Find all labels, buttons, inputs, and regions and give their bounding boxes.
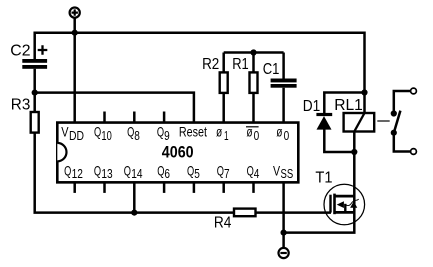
svg-text:V: V	[273, 162, 281, 178]
svg-text:12: 12	[72, 166, 83, 181]
svg-text:R3: R3	[11, 97, 31, 114]
svg-text:T1: T1	[315, 170, 332, 187]
svg-text:Q: Q	[157, 162, 164, 178]
svg-text:V: V	[61, 124, 69, 140]
svg-text:DD: DD	[69, 128, 84, 143]
svg-text:Q: Q	[94, 162, 101, 178]
svg-text:Reset: Reset	[179, 124, 207, 140]
svg-text:8: 8	[134, 128, 140, 143]
svg-text:Q: Q	[64, 162, 71, 178]
svg-text:SS: SS	[281, 166, 294, 181]
svg-text:0: 0	[284, 128, 290, 143]
svg-text:9: 9	[164, 128, 170, 143]
svg-text:Q: Q	[94, 124, 101, 140]
svg-text:Q: Q	[127, 124, 134, 140]
svg-text:R4: R4	[214, 215, 232, 232]
svg-text:D1: D1	[303, 98, 321, 115]
svg-text:13: 13	[101, 166, 112, 181]
svg-text:ø: ø	[216, 124, 223, 140]
svg-text:4: 4	[254, 166, 260, 181]
svg-text:Q: Q	[187, 162, 194, 178]
svg-text:1: 1	[224, 128, 229, 143]
svg-text:RL1: RL1	[334, 97, 363, 114]
svg-text:Q: Q	[247, 162, 254, 178]
svg-text:ø: ø	[246, 124, 253, 140]
svg-text:0: 0	[254, 128, 260, 143]
svg-text:Q: Q	[124, 162, 131, 178]
svg-text:ø: ø	[276, 124, 283, 140]
svg-text:Q: Q	[217, 162, 224, 178]
svg-text:R1: R1	[232, 56, 249, 73]
svg-text:6: 6	[164, 166, 170, 181]
svg-text:14: 14	[131, 166, 142, 181]
svg-text:7: 7	[224, 166, 230, 181]
svg-text:5: 5	[194, 166, 200, 181]
svg-text:10: 10	[101, 128, 111, 143]
svg-text:4060: 4060	[162, 143, 194, 161]
svg-text:C1: C1	[263, 61, 280, 78]
svg-text:C2: C2	[10, 42, 30, 59]
svg-text:Q: Q	[157, 124, 164, 140]
svg-text:R2: R2	[202, 56, 219, 73]
